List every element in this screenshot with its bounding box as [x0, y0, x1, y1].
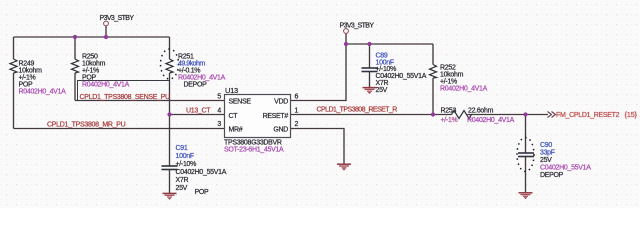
- junction node R252 bottom: [431, 112, 435, 116]
- resistor R251 (DEPOP, dotted ellipse): [161, 49, 226, 89]
- svg-text:R251: R251: [178, 54, 194, 61]
- svg-text:22.6ohm: 22.6ohm: [468, 108, 494, 115]
- svg-text:+/-1%: +/-1%: [440, 79, 457, 86]
- svg-text:R253: R253: [441, 108, 457, 115]
- svg-text:CPLD1_TPS3808_RESET_R: CPLD1_TPS3808_RESET_R: [317, 107, 398, 114]
- resistor R252: [430, 65, 488, 93]
- junction node C90 tap: [523, 112, 527, 116]
- wire left power drop: [105, 26, 107, 37]
- wire C89 top lead: [369, 44, 371, 68]
- svg-text:10kohm: 10kohm: [440, 72, 464, 79]
- ground (C91): [163, 193, 177, 199]
- wire SENSE net: [75, 100, 225, 102]
- svg-text:TPS3808G33DBVR: TPS3808G33DBVR: [224, 140, 282, 147]
- svg-text:R0402H0_4V1A: R0402H0_4V1A: [440, 86, 488, 93]
- svg-text:SOT-23-6H1_45V1A: SOT-23-6H1_45V1A: [224, 147, 284, 154]
- svg-text:2: 2: [295, 121, 299, 128]
- svg-text:+/-1%: +/-1%: [82, 68, 99, 75]
- resistor R249: [10, 59, 66, 96]
- wire right power drop: [345, 34, 347, 45]
- svg-text:R0402H0_4V1A: R0402H0_4V1A: [82, 82, 130, 89]
- svg-text:X7R: X7R: [176, 177, 189, 184]
- wire RESET net: [291, 114, 452, 116]
- svg-text:1: 1: [295, 108, 299, 115]
- svg-text:CPLD1_TPS3808_MR_PU: CPLD1_TPS3808_MR_PU: [47, 122, 126, 129]
- svg-text:+/-0.1%: +/-0.1%: [178, 68, 200, 75]
- svg-text:25V: 25V: [376, 87, 388, 94]
- wire C89 lower lead: [369, 72, 371, 88]
- svg-text:P3V3_STBY: P3V3_STBY: [100, 15, 135, 22]
- svg-text:RESET#: RESET#: [263, 113, 289, 120]
- svg-text:33pF: 33pF: [540, 150, 555, 157]
- svg-text:R249: R249: [19, 61, 35, 68]
- junction node right power: [344, 42, 348, 46]
- capacitor C89: [362, 53, 427, 95]
- ground (C89): [363, 88, 377, 94]
- resistor R250: [72, 54, 130, 89]
- wire MR net: [14, 128, 225, 130]
- off-page connector FM_CPLD1_RESET2: [548, 110, 638, 119]
- svg-text:FM_CPLD1_RESET2: FM_CPLD1_RESET2: [556, 112, 620, 119]
- svg-text:R250: R250: [82, 54, 98, 61]
- wire R250 column: [74, 37, 76, 101]
- svg-text:5: 5: [217, 94, 221, 101]
- ground (C90): [519, 193, 533, 199]
- wire CT net: [170, 114, 225, 116]
- svg-text:10kohm: 10kohm: [19, 68, 43, 75]
- svg-text:100nF: 100nF: [176, 153, 194, 160]
- svg-text:CT: CT: [229, 113, 239, 120]
- svg-text:+/-1%: +/-1%: [19, 75, 36, 82]
- svg-text:GND: GND: [273, 127, 288, 134]
- power symbol P3V3_STBY left: [100, 15, 135, 26]
- op-amp U13 box: [217, 86, 298, 154]
- svg-text:R0402H0_4V1A: R0402H0_4V1A: [19, 89, 67, 96]
- svg-text:DEPOP: DEPOP: [184, 82, 208, 89]
- svg-text:C0402H0_55V1A: C0402H0_55V1A: [176, 169, 227, 176]
- wire C91 lower lead: [169, 170, 171, 193]
- wire C90 drop: [525, 115, 527, 154]
- wire VDD to power: [291, 44, 347, 101]
- ground (U13 GND pin): [337, 164, 351, 170]
- svg-text:C91: C91: [176, 145, 188, 152]
- svg-text:{15}: {15}: [625, 110, 638, 119]
- wire GND pin to ground: [291, 129, 345, 165]
- junction node C89 tap: [367, 42, 371, 46]
- svg-text:49.9kohm: 49.9kohm: [178, 61, 205, 68]
- svg-text:6: 6: [295, 94, 299, 101]
- wire top-left rail: [14, 36, 170, 38]
- junction node power tap left: [104, 35, 108, 39]
- svg-text:4: 4: [217, 108, 221, 115]
- svg-text:25V: 25V: [176, 185, 188, 192]
- wire C90 lower lead: [525, 157, 527, 193]
- svg-text:POP: POP: [195, 189, 210, 196]
- svg-text:P3V3_STBY: P3V3_STBY: [340, 23, 375, 30]
- svg-text:C90: C90: [540, 142, 552, 149]
- wire R252 column: [432, 44, 434, 115]
- wire right rail: [346, 43, 433, 45]
- svg-text:+/-1%: +/-1%: [441, 117, 458, 124]
- svg-text:U13: U13: [225, 86, 238, 95]
- capacitor C91: [162, 145, 227, 196]
- svg-text:C0402H0_55V1A: C0402H0_55V1A: [540, 165, 591, 172]
- svg-text:10kohm: 10kohm: [82, 61, 106, 68]
- svg-text:R252: R252: [440, 65, 456, 72]
- power symbol P3V3_STBY right: [340, 23, 375, 34]
- wire left column R249: [13, 37, 15, 129]
- wire R253 to output: [468, 114, 549, 116]
- svg-text:X7R: X7R: [376, 80, 389, 87]
- svg-text:VDD: VDD: [274, 99, 288, 106]
- svg-text:3: 3: [217, 121, 221, 128]
- capacitor C90 (DEPOP, dotted ellipse): [517, 138, 591, 180]
- svg-text:R0402H0_4V1A: R0402H0_4V1A: [467, 117, 515, 124]
- wire R251 / C91 column: [169, 37, 171, 166]
- svg-text:R0402H0_4V1A: R0402H0_4V1A: [178, 75, 226, 82]
- svg-text:C89: C89: [376, 53, 388, 60]
- svg-text:+/-10%: +/-10%: [376, 66, 397, 73]
- resistor R253 (series, horizontal): [441, 108, 515, 125]
- svg-text:CPLD1_TPS3808_SENSE_PU: CPLD1_TPS3808_SENSE_PU: [80, 94, 171, 101]
- svg-text:C0402H0_55V1A: C0402H0_55V1A: [376, 73, 427, 80]
- svg-text:DEPOP: DEPOP: [540, 172, 564, 179]
- svg-text:SENSE: SENSE: [229, 99, 252, 106]
- svg-text:U13_CT: U13_CT: [186, 108, 211, 115]
- junction node SENSE rail R250: [73, 35, 77, 39]
- svg-text:+/-10%: +/-10%: [176, 161, 197, 168]
- net label box CPLD1_TPS3808_SENSE_PU: [78, 81, 171, 102]
- junction node CT: [167, 112, 171, 116]
- svg-text:POP: POP: [19, 82, 34, 89]
- svg-text:25V: 25V: [540, 157, 552, 164]
- svg-text:MR#: MR#: [229, 127, 243, 134]
